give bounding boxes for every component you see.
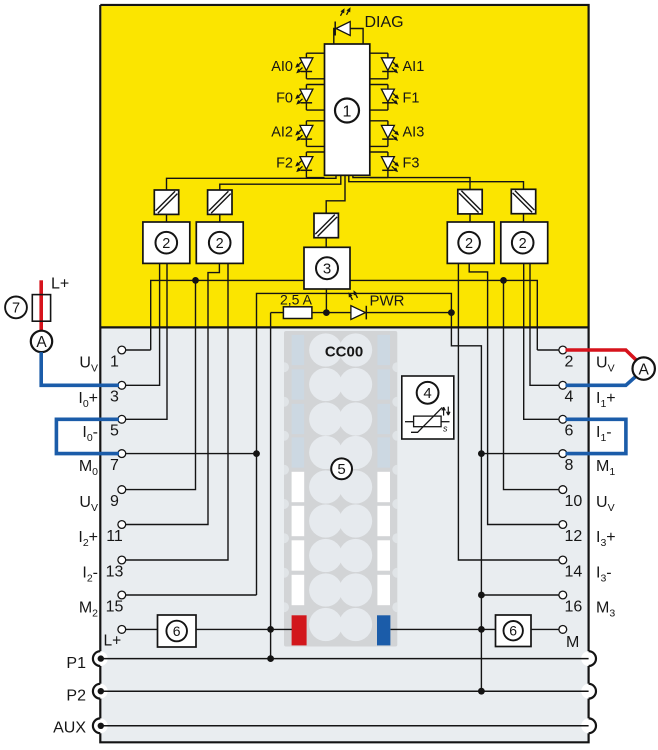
terminal pin 13 — [118, 556, 126, 564]
wire: S4 to input box — [523, 214, 525, 222]
svg-text:AUX: AUX — [53, 719, 86, 736]
wire: S3 to input box — [469, 214, 471, 222]
wire: internal U_V supply bus — [151, 280, 538, 350]
node: U_V bus / terminal 9 tap — [192, 277, 199, 284]
P2 terminal dot — [98, 688, 104, 694]
wire: external L+ red feed — [39, 280, 43, 331]
wire: terminal 6 to input box pin — [524, 263, 559, 419]
svg-text:I0-: I0- — [82, 424, 98, 444]
terminal pin 1 — [118, 346, 126, 354]
svg-text:F0: F0 — [276, 91, 293, 107]
isolation barrier S5 (backplane) — [314, 213, 338, 237]
terminal pin M — [559, 626, 567, 634]
module body (grey device outline) — [100, 5, 588, 742]
protection box (4) — [402, 376, 454, 439]
wire: terminal 3 to input box pin — [126, 263, 160, 385]
terminal pin 3 — [118, 381, 126, 389]
wire: blue jumper terminal 6 to 8 — [566, 419, 626, 453]
ground-select box 6 (right) — [496, 615, 532, 647]
notch white pockets — [93, 651, 108, 666]
ammeter A (left) — [31, 331, 52, 352]
yellow/grey boundary line — [100, 326, 588, 328]
LED F2 — [294, 152, 325, 178]
wire: terminal 15 to M rail — [126, 594, 257, 596]
wire: block pin to isolation square S3 — [353, 175, 470, 189]
terminal pin 12 — [559, 521, 567, 529]
svg-text:M2: M2 — [79, 600, 98, 620]
wire: external blue to terminal 3 — [41, 352, 119, 385]
svg-text:s: s — [443, 424, 448, 434]
wire: terminal 2 to U_V bus — [537, 349, 559, 351]
svg-text:13: 13 — [106, 563, 124, 580]
wire: 2,5 A fuse line / PWR LED line — [271, 312, 452, 314]
svg-text:M3: M3 — [596, 600, 615, 620]
wire: terminal 5 to input box pin — [126, 263, 167, 419]
wire: blue jumper terminal 5 to 7 — [56, 419, 119, 453]
svg-text:F1: F1 — [403, 91, 420, 107]
CC00 terminal-box illustration (decorative) — [284, 331, 397, 647]
svg-text:I3-: I3- — [596, 565, 612, 585]
terminal pin 2 — [559, 346, 567, 354]
svg-text:7: 7 — [110, 457, 119, 474]
svg-text:CC00: CC00 — [325, 344, 363, 361]
input circuit box (2) — [143, 222, 190, 263]
LED PWR — [347, 289, 367, 319]
svg-text:M1: M1 — [596, 458, 615, 478]
wire: L+ terminal to box 6 — [126, 628, 158, 630]
wire: internal M bus — [257, 293, 452, 595]
wire: terminal 8 to M rail — [481, 453, 559, 455]
wire: DIAG LED bridge — [334, 29, 363, 45]
wire: external blue terminal 4 to ammeter — [566, 375, 638, 385]
svg-text:UV: UV — [79, 355, 98, 375]
P2 bus line — [100, 690, 588, 692]
isolation barrier S3 — [458, 190, 482, 214]
svg-text:6: 6 — [509, 623, 517, 639]
terminal pin L+ — [118, 626, 126, 634]
backplane interface box (3) — [304, 247, 350, 289]
input circuit box (2) — [501, 222, 548, 263]
module border with gaps at P1/P2/AUX notches — [100, 5, 588, 742]
svg-text:6: 6 — [565, 423, 574, 440]
wire: middle square to box 3 — [325, 238, 327, 248]
wire: block pin to middle isolation square — [326, 175, 345, 213]
wire: box 3 output to fuse line — [325, 289, 327, 313]
LED AI1 — [370, 53, 401, 79]
svg-text:F3: F3 — [403, 156, 420, 172]
svg-text:4: 4 — [565, 389, 574, 406]
notch arcs left — [93, 651, 100, 733]
wire: terminal 4 to input box pin — [530, 263, 559, 385]
terminal pin 16 — [559, 591, 567, 599]
wire: terminal 16 to M rail — [481, 594, 559, 596]
P1 terminal dot — [98, 655, 104, 661]
node: L+ rail / box 6 line — [267, 626, 274, 633]
LED AI2 — [294, 121, 325, 147]
terminal pin 5 — [118, 415, 126, 423]
node: M rail / P2 bus — [478, 688, 485, 695]
svg-text:AI3: AI3 — [403, 124, 425, 140]
terminal pin 11 — [118, 521, 126, 529]
wire: terminal 12 to input box pin (jog) — [469, 263, 559, 524]
svg-text:I2+: I2+ — [78, 529, 98, 549]
wire: terminal 7 to M rail — [126, 453, 257, 455]
svg-text:1: 1 — [343, 103, 352, 120]
svg-text:5: 5 — [110, 423, 119, 440]
svg-text:1: 1 — [110, 353, 119, 370]
svg-text:AI1: AI1 — [403, 59, 425, 75]
wire: terminal 14 to input box pin — [458, 263, 559, 560]
input circuit box (2) — [196, 222, 243, 263]
svg-text:7: 7 — [12, 301, 20, 317]
svg-text:I2-: I2- — [82, 565, 98, 585]
terminal pin 8 — [559, 450, 567, 458]
LED AI3 — [370, 121, 401, 147]
svg-text:2: 2 — [465, 236, 473, 252]
wire: block pin to isolation square S2 — [220, 175, 341, 190]
wire: M rail to right terminals (jog) — [451, 313, 481, 692]
svg-text:UV: UV — [79, 494, 98, 514]
svg-text:3: 3 — [110, 389, 119, 406]
AUX bus line — [100, 725, 588, 727]
svg-text:2: 2 — [216, 236, 224, 252]
terminal pin 14 — [559, 556, 567, 564]
node: L+ rail / P1 bus — [267, 655, 274, 662]
svg-text:6: 6 — [173, 623, 181, 639]
svg-text:3: 3 — [323, 261, 331, 278]
wire: box 6 to L+ rail and red coding tab — [196, 628, 292, 630]
svg-text:I0+: I0+ — [78, 390, 98, 410]
fuse (7) external — [32, 295, 50, 322]
LED DIAG — [335, 6, 352, 35]
svg-text:AI0: AI0 — [271, 59, 293, 75]
isolation barrier S1 — [154, 190, 178, 214]
svg-text:PWR: PWR — [370, 293, 405, 310]
svg-text:16: 16 — [565, 598, 583, 615]
ground-select box 6 (left) — [158, 615, 197, 647]
svg-text:A: A — [639, 361, 650, 378]
wire: block pin to isolation square S4 — [349, 175, 524, 189]
isolation barrier S2 — [208, 190, 232, 214]
yellow electronics zone — [101, 6, 587, 326]
wire: terminal 9 to U_V bus — [126, 280, 196, 489]
LED F0 — [294, 85, 325, 111]
svg-text:8: 8 — [565, 457, 574, 474]
svg-text:12: 12 — [565, 528, 583, 545]
terminal pin 7 — [118, 450, 126, 458]
svg-text:UV: UV — [596, 494, 615, 514]
ammeter A (right) — [633, 357, 655, 379]
isolation barrier S4 — [511, 189, 535, 213]
svg-text:I1-: I1- — [596, 424, 612, 444]
legend marker (7) — [5, 297, 27, 319]
svg-text:11: 11 — [106, 528, 123, 545]
node: fuse line / box 3 output — [323, 309, 330, 316]
wire: terminal 13 to input box pin — [126, 263, 228, 560]
node: M rail / terminal 8 — [478, 450, 485, 457]
node: M rail / box 6 line — [478, 626, 485, 633]
op-amp/ADC block U1 (1) — [325, 44, 370, 175]
terminal pin 10 — [559, 486, 567, 494]
svg-text:F2: F2 — [276, 156, 293, 172]
fuse F 2,5A — [283, 307, 312, 319]
LED F1 — [370, 85, 401, 111]
svg-text:P1: P1 — [66, 655, 86, 672]
wire: L+ rail (fuse feed down to P1) — [270, 313, 272, 659]
node: M rail / terminal 7 — [253, 450, 260, 457]
node: M rail / terminal 16 — [478, 592, 485, 599]
svg-text:14: 14 — [565, 563, 583, 580]
wire: block pin to isolation square S1 — [167, 175, 337, 190]
svg-text:I3+: I3+ — [596, 529, 616, 549]
wire: terminal 10 to U_V bus — [504, 280, 559, 489]
svg-text:UV: UV — [596, 355, 615, 375]
LED F3 — [370, 152, 401, 178]
svg-text:M0: M0 — [79, 458, 98, 478]
notch arcs right — [589, 651, 596, 733]
terminal pin 15 — [118, 591, 126, 599]
svg-text:AI2: AI2 — [271, 124, 293, 140]
svg-text:2: 2 — [519, 236, 527, 252]
svg-text:10: 10 — [565, 493, 583, 510]
terminal pin 4 — [559, 381, 567, 389]
wire: terminal 1 to U_V bus — [126, 349, 151, 351]
svg-text:M: M — [566, 634, 579, 651]
AUX terminal dot — [98, 723, 104, 729]
node: U_V bus / terminal 10 tap — [500, 277, 507, 284]
svg-text:2: 2 — [162, 236, 170, 252]
legend marker (5) — [331, 458, 352, 479]
svg-text:9: 9 — [110, 493, 119, 510]
svg-text:P2: P2 — [66, 688, 86, 705]
wire: S2 to input box — [219, 214, 221, 222]
wire: M terminal to box 6 — [531, 628, 559, 630]
wire: external red terminal 2 to ammeter — [566, 350, 638, 361]
terminal pin 6 — [559, 415, 567, 423]
svg-text:5: 5 — [337, 461, 345, 478]
svg-text:DIAG: DIAG — [365, 14, 404, 31]
svg-text:15: 15 — [106, 598, 124, 615]
P1 bus line — [100, 658, 588, 660]
terminal pin 9 — [118, 486, 126, 494]
node: PWR line / M rail — [448, 309, 455, 316]
wire: S1 to input box — [166, 214, 168, 222]
svg-text:2: 2 — [565, 353, 574, 370]
LED AI0 — [294, 53, 325, 79]
svg-text:I1+: I1+ — [596, 390, 616, 410]
svg-text:4: 4 — [423, 385, 431, 402]
svg-text:A: A — [36, 334, 47, 351]
svg-text:L+: L+ — [104, 633, 122, 650]
svg-text:2,5 A: 2,5 A — [280, 292, 313, 308]
input circuit box (2) — [447, 222, 494, 263]
svg-text:L+: L+ — [51, 276, 69, 293]
wire: box 6 to M rail and blue coding tab — [391, 628, 496, 630]
wire: terminal 11 to input box pin (jog) — [126, 263, 220, 524]
